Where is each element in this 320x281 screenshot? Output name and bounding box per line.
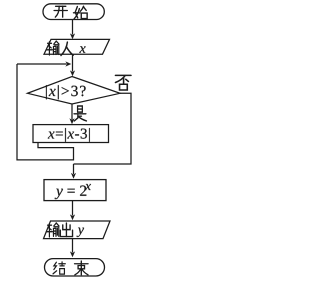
label 输 (input) <box>46 41 59 55</box>
label 开 <box>54 6 67 17</box>
label y (output variable) <box>77 228 84 237</box>
label 束 <box>75 261 88 275</box>
wire: no-branch right/down/left into y=2^x line <box>71 93 131 179</box>
label 是 (yes) <box>74 106 87 121</box>
label x (input variable) <box>79 46 85 52</box>
label 输 (output) <box>46 223 59 237</box>
label 否 (no) <box>115 75 130 90</box>
wire: y box to output <box>70 201 75 221</box>
decision: |x|>3? diamond <box>28 77 121 105</box>
wire: output to end <box>70 239 75 258</box>
io: output y parallelogram <box>44 221 111 239</box>
wire: loop return horizontal into junction <box>17 61 71 66</box>
label 结 <box>53 262 65 274</box>
wire: start to input <box>70 20 75 40</box>
process: y=2^x box <box>44 180 106 201</box>
terminal: end stadium <box>45 259 105 276</box>
wire: yes-branch into box <box>69 104 74 124</box>
terminal: start stadium <box>43 4 104 20</box>
label 出 <box>60 223 72 237</box>
label 始 <box>74 6 88 19</box>
wire: loop back (stub, right, down, long left, up) <box>17 64 74 160</box>
process: x=|x-3| box <box>33 125 109 143</box>
io: input x parallelogram <box>44 39 110 54</box>
wire: input to decision <box>70 54 75 76</box>
label 入 <box>61 42 73 55</box>
